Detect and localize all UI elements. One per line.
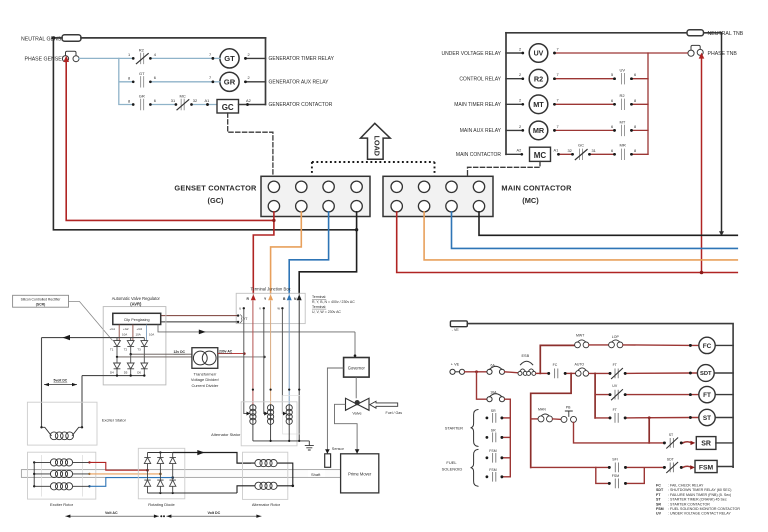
breaker CB-genset: [66, 51, 77, 55]
svg-text:SFI: SFI: [612, 457, 617, 461]
thyristor Q1: [116, 338, 118, 341]
wire FT2 to ST coil: [625, 417, 699, 419]
thyristor Q3: [143, 338, 145, 341]
shaft: [21, 470, 340, 478]
svg-text:Volt AC: Volt AC: [105, 511, 118, 515]
alternator stator box: [241, 402, 297, 446]
svg-text:R, Y, B, N = 400v / 230v AC: R, Y, B, N = 400v / 230v AC: [312, 300, 355, 304]
wire PB down to SR row: [574, 422, 665, 443]
dotted load bus: [312, 162, 435, 176]
svg-text:GC: GC: [222, 103, 234, 112]
wire FT to SDT coil: [625, 372, 697, 374]
svg-text:LOP: LOP: [612, 335, 620, 339]
svg-text:: FAILURE MAIN TIMER (FNB) (5: : FAILURE MAIN TIMER (FNB) (5. Sec): [668, 493, 731, 497]
svg-text:SR: SR: [701, 441, 711, 448]
svg-text:GR: GR: [224, 77, 236, 86]
svg-text:2: 2: [519, 98, 521, 103]
svg-text:UV: UV: [534, 51, 544, 58]
svg-text:A1: A1: [554, 148, 559, 153]
relay coil FT: [699, 386, 715, 402]
relay coil SDT: [697, 365, 714, 382]
exciter rotor coil 2: [34, 473, 89, 475]
wire MAN to PB: [553, 418, 562, 421]
svg-text:7: 7: [557, 98, 559, 103]
svg-text:Terminal:: Terminal:: [312, 295, 326, 299]
svg-text:+G1: +G1: [110, 327, 116, 331]
svg-text:MAN: MAN: [538, 407, 546, 411]
sensor: [325, 454, 331, 468]
svg-text:7: 7: [209, 52, 211, 57]
svg-text:1: 1: [128, 52, 130, 57]
svg-text:FC: FC: [656, 484, 661, 488]
contact MC NC row3: [181, 99, 184, 109]
gate wires from clip box: [118, 325, 119, 344]
svg-text:6: 6: [154, 75, 156, 80]
wire phase genset rail: [66, 61, 274, 221]
wire R down to stator: [252, 301, 254, 405]
svg-text:Exciter Rotor: Exciter Rotor: [50, 502, 74, 507]
svg-text:GR: GR: [139, 94, 145, 99]
wire AVR anode bus down to exciter stator: [41, 338, 43, 428]
svg-text:31: 31: [592, 148, 596, 153]
alternator rotor box: [243, 452, 288, 499]
wire MWT to LOP: [589, 344, 609, 346]
svg-text:PB: PB: [566, 405, 571, 409]
wire neutral tnb drop: [721, 33, 723, 232]
diode cathode bus to exciter stator: [82, 375, 144, 377]
svg-text:D6: D6: [137, 371, 141, 375]
relay GR: [220, 72, 239, 91]
svg-text:(MC): (MC): [522, 196, 539, 205]
fuse -VE: [450, 321, 467, 327]
wire blue drop: [119, 58, 133, 104]
svg-text:Valve: Valve: [352, 412, 361, 416]
valve pipe to prime mover: [335, 404, 358, 454]
wire B genset: [289, 212, 328, 294]
svg-text:ST: ST: [656, 498, 661, 502]
svg-text:2: 2: [519, 124, 521, 129]
svg-text:MC: MC: [180, 94, 186, 99]
svg-text:FSM: FSM: [489, 468, 496, 472]
svg-text:UV: UV: [656, 512, 662, 516]
svg-text:STARTER: STARTER: [445, 425, 463, 430]
svg-text:Terminal:: Terminal:: [312, 305, 326, 309]
relay coil FC: [699, 337, 715, 353]
stator coil V: [270, 405, 272, 424]
svg-text:12v DC: 12v DC: [174, 350, 186, 354]
drop from AUTO junction down two rows: [594, 373, 596, 418]
svg-text:8: 8: [128, 76, 130, 81]
svg-text:MAIN CONTACTOR: MAIN CONTACTOR: [456, 152, 501, 158]
svg-text:(AVR): (AVR): [130, 301, 142, 306]
diode column 3: [170, 453, 176, 494]
wire +VE to 6A: [465, 371, 487, 373]
wire UV to FT coil: [625, 394, 699, 396]
svg-text:: STARTER CONTACTOR: : STARTER CONTACTOR: [668, 502, 710, 506]
svg-text:MAIN TIMER RELAY: MAIN TIMER RELAY: [454, 102, 501, 108]
genset contactor block: [261, 176, 370, 216]
svg-text:8: 8: [634, 148, 636, 153]
svg-text:SDT: SDT: [667, 457, 675, 461]
dc bus A to transformer: [131, 353, 192, 355]
wire phase tnb to UV row: [555, 52, 688, 54]
scr anode bus with left arrow to exciter stator: [42, 337, 145, 339]
svg-text:7: 7: [557, 124, 559, 129]
terminal B arrow: [287, 294, 292, 300]
contactor coil MC: [506, 153, 522, 155]
governor to valve: [355, 377, 357, 398]
svg-text:Fuel / Gas: Fuel / Gas: [386, 411, 403, 415]
svg-text:MWT: MWT: [576, 334, 585, 338]
exciter rotor bus: [33, 462, 35, 486]
svg-text:Rotating Diode: Rotating Diode: [148, 502, 175, 507]
svg-text:: UNDER VOLTAGE CONTACT RELAY: : UNDER VOLTAGE CONTACT RELAY: [668, 512, 731, 516]
wire R2 row: [555, 78, 649, 80]
hook to FSM box: [683, 466, 692, 467]
svg-text:MR: MR: [533, 126, 545, 135]
wire R genset: [253, 212, 274, 294]
dc bus B to transformer: [117, 356, 192, 358]
wire phase tnb drop: [701, 57, 703, 273]
svg-text:A2: A2: [246, 98, 251, 103]
wire Y down to stator: [270, 301, 272, 405]
riser SFI to FSM row: [596, 467, 610, 483]
svg-text:A1: A1: [205, 98, 210, 103]
wire N genset: [299, 212, 356, 294]
svg-text:FSM: FSM: [612, 474, 619, 478]
exciter stator coil: [40, 426, 42, 428]
svg-text:5volt DC: 5volt DC: [54, 379, 68, 383]
wire FC to AUTO: [565, 372, 575, 374]
svg-text:A2: A2: [517, 148, 522, 153]
svg-text:PHASE TNB: PHASE TNB: [708, 51, 738, 57]
fuel gas arrow: [370, 401, 398, 408]
svg-text:NEUTRAL TNB: NEUTRAL TNB: [708, 31, 744, 37]
terminal V node: [263, 307, 265, 309]
wire B down to stator: [288, 301, 290, 405]
exciter stator box: [27, 402, 97, 445]
wire top rail genset: [53, 37, 265, 39]
UV row wire: [595, 394, 610, 396]
relay coil ST: [699, 409, 715, 425]
contact GC NC: [580, 149, 583, 159]
svg-text:MAIN CONTACTOR: MAIN CONTACTOR: [501, 183, 572, 192]
diode column 1: [144, 453, 150, 494]
svg-text:8: 8: [634, 98, 636, 103]
wire right rail genset: [265, 38, 267, 105]
svg-text:T2: T2: [124, 347, 128, 351]
svg-text:SR: SR: [656, 502, 661, 506]
svg-text:230v AC: 230v AC: [219, 350, 233, 354]
exciter rotor coil 3: [34, 485, 89, 487]
svg-text:D5: D5: [124, 371, 128, 375]
relay MT: [506, 103, 523, 105]
svg-text:2: 2: [248, 52, 250, 57]
svg-text:GENERATOR AUX RELAY: GENERATOR AUX RELAY: [269, 80, 330, 86]
terminal Y arrow: [268, 294, 273, 300]
relay R2: [506, 78, 523, 80]
dashed link GC coil to GENSET contactor block: [228, 113, 273, 176]
svg-text:D4: D4: [110, 371, 114, 375]
transformer output to U: [218, 353, 245, 355]
contactor coil SR: [696, 437, 716, 450]
svg-text:SDT: SDT: [656, 488, 664, 492]
terminal W node: [281, 307, 283, 309]
terminal U node: [243, 307, 245, 309]
svg-text:2: 2: [519, 46, 521, 51]
svg-text:SDT: SDT: [700, 371, 712, 377]
relay MR: [506, 129, 523, 131]
SCR callout box: [13, 295, 69, 307]
exciter rotor coil 1: [34, 461, 89, 463]
wire AUTO to FT: [589, 372, 610, 374]
wire MC row: [559, 153, 649, 155]
avr to governor control line: [158, 325, 355, 332]
svg-text:GT: GT: [224, 54, 235, 63]
wire top rail tnb: [506, 32, 722, 34]
wire Y main: [424, 212, 737, 260]
wire left rail tnb: [505, 33, 507, 155]
starter brace: [471, 410, 478, 447]
contact R2 NC row1: [141, 53, 144, 63]
svg-text:SOLENOID: SOLENOID: [442, 467, 463, 472]
svg-text:CONTROL RELAY: CONTROL RELAY: [459, 77, 501, 83]
wire ESB to FC contact: [536, 372, 549, 374]
svg-text:8: 8: [128, 98, 130, 103]
svg-text:MT: MT: [533, 100, 544, 109]
svg-text:5: 5: [611, 72, 613, 77]
svg-text:Voltage Divider/: Voltage Divider/: [191, 377, 220, 382]
svg-text:: FAIL CHECK RELAY: : FAIL CHECK RELAY: [668, 484, 704, 488]
svg-text:+G2: +G2: [123, 327, 129, 331]
svg-text:UV: UV: [620, 68, 626, 73]
svg-text:31: 31: [171, 98, 175, 103]
svg-text:Current Divider: Current Divider: [191, 383, 219, 388]
wire SFI-FSM join: [626, 467, 665, 483]
svg-text:6: 6: [154, 98, 156, 103]
contact R2b NO: [622, 99, 625, 109]
svg-text:UNDER VOLTAGE RELAY: UNDER VOLTAGE RELAY: [442, 51, 502, 57]
terminal junction box outline: [236, 293, 305, 323]
svg-text:32: 32: [193, 98, 197, 103]
svg-text:8: 8: [634, 124, 636, 129]
alternator rotor coil 1: [255, 460, 262, 467]
hook to SR box: [683, 442, 692, 443]
relay GT: [220, 49, 239, 68]
prime mover box: [341, 454, 379, 493]
svg-text:+ VE: + VE: [451, 363, 460, 367]
svg-text:UV: UV: [612, 384, 618, 388]
fuel solenoid feed row: [531, 466, 610, 468]
svg-text:Exciter Stator: Exciter Stator: [102, 417, 127, 422]
svg-text:- VE: - VE: [452, 328, 460, 332]
wire B main: [452, 212, 738, 249]
svg-text:(GC): (GC): [207, 196, 224, 205]
governor box: [344, 358, 370, 378]
svg-text:: FUEL SOLENOID MONITOR CONTA: : FUEL SOLENOID MONITOR CONTACTOR: [668, 507, 740, 511]
svg-text:Volt DC: Volt DC: [208, 511, 221, 515]
stator coil U: [252, 405, 254, 424]
svg-text:ESB: ESB: [522, 354, 530, 358]
wire blue row3: [150, 104, 217, 106]
svg-text:6: 6: [611, 124, 613, 129]
svg-text:PHASE GENSET: PHASE GENSET: [25, 57, 66, 63]
contactor coil FSM: [695, 460, 717, 472]
transformer output to V: [218, 356, 265, 358]
fuse F-neutral-genset: [62, 35, 81, 41]
svg-text:Terminal Junction Box: Terminal Junction Box: [250, 286, 290, 291]
svg-text:SR: SR: [491, 429, 496, 433]
svg-text:R2: R2: [620, 93, 626, 98]
wire exciter to diode B: [90, 478, 172, 487]
wire exciter to diode R: [90, 462, 147, 470]
svg-text:FSM: FSM: [656, 507, 664, 511]
svg-text:6: 6: [611, 148, 613, 153]
wire neutral genset rail: [52, 36, 55, 39]
svg-text:Prime Mover: Prime Mover: [348, 471, 372, 476]
svg-text:7: 7: [209, 75, 211, 80]
svg-text:FSM: FSM: [699, 464, 714, 471]
wire U tap: [244, 310, 247, 414]
wire N main: [479, 212, 737, 235]
svg-text:GENERATOR CONTACTOR: GENERATOR CONTACTOR: [269, 102, 333, 108]
svg-text:R2: R2: [139, 47, 145, 52]
governor to sensor line: [327, 368, 343, 454]
drop from FC-AUTO to MAN row: [531, 373, 571, 467]
SCR callout leader: [69, 302, 113, 341]
diode D5: [130, 354, 132, 363]
svg-text:FUEL: FUEL: [446, 460, 457, 465]
svg-text:GC: GC: [578, 142, 584, 147]
contact MR2 NO: [622, 149, 625, 159]
svg-text:2: 2: [519, 72, 521, 77]
rotating diode bottom bus: [148, 492, 238, 494]
svg-text:2: 2: [248, 75, 250, 80]
stator neutral bus: [253, 440, 309, 442]
rotating diode top bus: [148, 452, 173, 454]
contact MT2 NO: [622, 125, 625, 135]
diode D4: [116, 357, 118, 363]
svg-text:Clip Penglasing: Clip Penglasing: [124, 318, 150, 322]
wire 6A to ESB: [505, 372, 518, 373]
svg-text:SR: SR: [491, 409, 496, 413]
svg-text:MAIN AUX RELAY: MAIN AUX RELAY: [460, 128, 502, 134]
svg-text:ST: ST: [703, 415, 711, 422]
wire MR row: [555, 129, 649, 131]
svg-text:GENSET CONTACTOR: GENSET CONTACTOR: [174, 183, 257, 192]
wire blue row2: [150, 81, 213, 83]
svg-text:6: 6: [634, 72, 636, 77]
svg-text:MT: MT: [620, 119, 626, 124]
wire 16A to starter bank: [505, 399, 511, 477]
wire red right rail contacts: [647, 53, 649, 154]
wire R main: [397, 212, 738, 273]
svg-text:GT: GT: [139, 71, 145, 76]
svg-text:10A: 10A: [149, 333, 154, 337]
svg-text:Alternator Stator: Alternator Stator: [211, 432, 241, 437]
wire VT sense pair from AVR clip box: [161, 315, 238, 317]
load arrow: [361, 123, 391, 159]
valve: [346, 398, 370, 410]
AVR box: [103, 307, 166, 385]
svg-text:FC: FC: [553, 363, 558, 367]
svg-text:FSM: FSM: [489, 449, 496, 453]
svg-text:MR: MR: [620, 142, 626, 147]
dc output arrow to alternator rotor: [173, 453, 251, 464]
terminal N arrow: [297, 294, 302, 300]
switch MAN: [531, 418, 538, 420]
alternator rotor coil 2: [255, 482, 262, 489]
svg-text:T3: T3: [137, 347, 141, 351]
svg-text:Transformer/: Transformer/: [194, 371, 218, 376]
riser ST row to SR row: [648, 418, 650, 443]
svg-text:u: u: [239, 307, 241, 311]
fuse 16A branch: [477, 372, 487, 399]
exciter rotor box: [28, 452, 96, 499]
control drop to governor: [354, 332, 356, 358]
svg-text:FT: FT: [703, 392, 711, 399]
breaker CB-tnb: [691, 45, 700, 49]
svg-text:: STARTER TIMER (CRANK) 45 Se: : STARTER TIMER (CRANK) 45 Sec: [668, 498, 727, 502]
ST row wire: [595, 417, 610, 419]
wire N down to ground bus: [298, 301, 300, 441]
svg-text:R2: R2: [534, 74, 543, 83]
ground: [305, 441, 314, 450]
svg-text:Shaft: Shaft: [311, 472, 321, 477]
wire V tap: [263, 310, 266, 414]
dashed link MC coil to MAIN contactor block: [468, 162, 541, 177]
svg-text:(SCR): (SCR): [36, 303, 45, 307]
svg-text:Alternator Rotor: Alternator Rotor: [252, 502, 281, 507]
main contactor block: [383, 176, 493, 216]
svg-text:MC: MC: [534, 151, 547, 160]
wire diode bus down to exciter stator: [81, 376, 83, 428]
wire LOP to FC coil: [623, 344, 699, 347]
svg-text:Automatic Valve Regulator: Automatic Valve Regulator: [112, 296, 161, 301]
diode column 2: [157, 453, 163, 494]
wire MT row: [555, 103, 649, 105]
contact GT NO row2: [141, 77, 144, 87]
stator coil W: [288, 405, 290, 424]
rotating diode box: [138, 448, 185, 499]
fuel solenoid brace: [471, 449, 478, 486]
contactor coil GC: [217, 100, 239, 114]
svg-text:U, V, W = 230v AC: U, V, W = 230v AC: [312, 310, 341, 314]
svg-text:10A: 10A: [136, 333, 141, 337]
wire blue feeder row1: [79, 57, 213, 59]
fuse F-neutral-tnb: [687, 30, 704, 36]
svg-text:32: 32: [568, 148, 572, 153]
svg-text:6: 6: [611, 98, 613, 103]
svg-text:7: 7: [557, 46, 559, 51]
terminal R arrow: [251, 294, 256, 300]
riser to MWT row: [540, 345, 574, 373]
thyristor Q2: [130, 338, 132, 341]
svg-text:LOAD: LOAD: [373, 136, 382, 156]
wire exciter to diode Y: [90, 473, 160, 475]
relay UV: [506, 52, 523, 54]
svg-text:T1: T1: [110, 347, 114, 351]
svg-text:+G3: +G3: [137, 327, 143, 331]
contact UV NO: [622, 74, 625, 84]
svg-text:GENERATOR TIMER RELAY: GENERATOR TIMER RELAY: [269, 56, 335, 62]
svg-text:AUTO: AUTO: [575, 363, 585, 367]
svg-text:Governor: Governor: [348, 365, 366, 370]
clip box: [113, 313, 161, 324]
svg-text:Sensor: Sensor: [332, 447, 345, 451]
svg-text:FC: FC: [703, 343, 712, 350]
diode D6: [143, 357, 145, 363]
